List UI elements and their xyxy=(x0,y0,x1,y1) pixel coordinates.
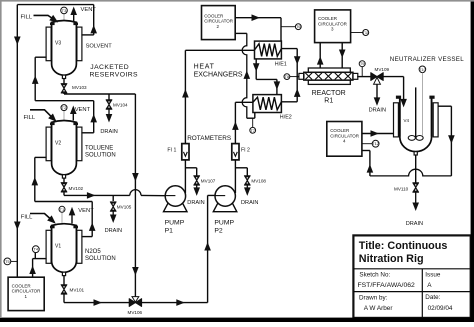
svg-text:A W Arber: A W Arber xyxy=(364,305,394,312)
svg-text:RESERVOIRS: RESERVOIRS xyxy=(90,71,139,78)
svg-text:Date:: Date: xyxy=(425,294,440,301)
svg-text:T11: T11 xyxy=(362,30,369,35)
svg-text:Sketch No:: Sketch No: xyxy=(359,272,390,279)
svg-text:COOLER: COOLER xyxy=(12,283,32,288)
svg-text:DRAIN: DRAIN xyxy=(100,129,117,135)
svg-text:V3: V3 xyxy=(55,40,61,46)
svg-text:V2: V2 xyxy=(55,140,61,146)
svg-text:MV105: MV105 xyxy=(117,204,132,209)
svg-text:CIRCULATOR: CIRCULATOR xyxy=(12,289,42,294)
svg-text:Title: Continuous: Title: Continuous xyxy=(359,240,448,252)
svg-text:V1: V1 xyxy=(55,244,61,250)
svg-text:PUMP: PUMP xyxy=(165,219,185,226)
svg-text:V4: V4 xyxy=(404,118,410,123)
svg-text:CIRCULATOR: CIRCULATOR xyxy=(318,21,348,26)
svg-text:COOLER: COOLER xyxy=(330,128,350,133)
svg-text:H/E1: H/E1 xyxy=(275,62,287,68)
svg-text:REACTOR: REACTOR xyxy=(312,90,346,97)
svg-text:VENT: VENT xyxy=(78,208,94,214)
svg-text:NEUTRALIZER VESSEL: NEUTRALIZER VESSEL xyxy=(390,56,464,63)
svg-text:CIRCULATOR: CIRCULATOR xyxy=(330,133,360,138)
svg-text:MV104: MV104 xyxy=(113,103,128,108)
svg-text:R1: R1 xyxy=(324,98,333,105)
svg-text:COOLER: COOLER xyxy=(204,13,224,18)
svg-text:Nitration Rig: Nitration Rig xyxy=(359,253,424,265)
svg-text:T6: T6 xyxy=(296,24,301,29)
svg-text:A: A xyxy=(427,282,432,289)
svg-text:MV102: MV102 xyxy=(69,186,84,191)
svg-text:Drawn by:: Drawn by: xyxy=(359,295,388,302)
svg-text:T7: T7 xyxy=(250,128,255,133)
svg-text:JACKETED: JACKETED xyxy=(90,64,129,71)
svg-text:ROTAMETERS: ROTAMETERS xyxy=(187,135,231,142)
svg-text:MV108: MV108 xyxy=(251,178,266,183)
svg-text:EXCHANGERS: EXCHANGERS xyxy=(194,71,243,78)
svg-text:T9: T9 xyxy=(360,61,365,66)
svg-text:P2: P2 xyxy=(214,227,223,234)
svg-text:MV110: MV110 xyxy=(394,187,409,192)
svg-text:DRAIN: DRAIN xyxy=(406,221,423,227)
svg-text:T10: T10 xyxy=(419,67,427,72)
svg-text:Issue: Issue xyxy=(425,272,441,279)
svg-text:DRAIN: DRAIN xyxy=(105,228,122,234)
svg-text:MV103: MV103 xyxy=(72,85,87,90)
svg-text:T12: T12 xyxy=(372,141,380,146)
svg-text:SOLUTION: SOLUTION xyxy=(85,256,116,262)
svg-text:PUMP: PUMP xyxy=(214,219,234,226)
svg-text:SOLUTION: SOLUTION xyxy=(85,153,116,159)
svg-text:CIRCULATOR: CIRCULATOR xyxy=(204,19,234,24)
svg-text:FI 2: FI 2 xyxy=(241,148,250,154)
svg-text:TOLUENE: TOLUENE xyxy=(85,146,113,152)
svg-text:H/E2: H/E2 xyxy=(280,115,292,121)
svg-text:FILL: FILL xyxy=(21,215,33,221)
svg-text:FILL: FILL xyxy=(24,115,36,121)
svg-text:FST/FFA/AWA/062: FST/FFA/AWA/062 xyxy=(358,282,416,289)
svg-text:T1: T1 xyxy=(60,207,65,212)
svg-text:P1: P1 xyxy=(165,227,174,234)
svg-text:DRAIN: DRAIN xyxy=(241,200,258,206)
svg-text:T5: T5 xyxy=(5,259,10,264)
svg-text:T3: T3 xyxy=(62,8,67,13)
svg-text:MV101: MV101 xyxy=(70,287,85,292)
svg-text:MV107: MV107 xyxy=(201,178,216,183)
svg-text:FILL: FILL xyxy=(21,15,33,21)
svg-text:N2O5: N2O5 xyxy=(85,249,101,255)
svg-text:MV106: MV106 xyxy=(128,310,143,315)
svg-text:FI 1: FI 1 xyxy=(167,148,176,154)
svg-text:HEAT: HEAT xyxy=(194,63,215,70)
svg-text:02/09/04: 02/09/04 xyxy=(428,305,453,312)
svg-text:VENT: VENT xyxy=(75,107,91,113)
svg-text:COOLER: COOLER xyxy=(318,16,338,21)
svg-text:T8: T8 xyxy=(285,74,290,79)
svg-text:MV109: MV109 xyxy=(375,67,390,72)
svg-text:T4: T4 xyxy=(33,247,38,252)
svg-text:VENT: VENT xyxy=(81,7,97,13)
svg-text:DRAIN: DRAIN xyxy=(369,107,386,113)
svg-text:DRAIN: DRAIN xyxy=(187,200,204,206)
svg-text:T2: T2 xyxy=(62,105,67,110)
svg-text:SOLVENT: SOLVENT xyxy=(86,44,113,50)
